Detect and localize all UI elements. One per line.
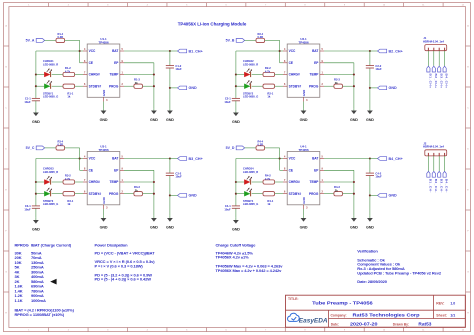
- wire led to R2-2: [252, 74, 263, 76]
- svg-text:BAT: BAT: [112, 49, 118, 53]
- svg-text:VCC: VCC: [89, 157, 96, 161]
- svg-text:TEMP: TEMP: [110, 180, 120, 184]
- svg-text:R2-3: R2-3: [334, 77, 340, 81]
- svg-text:STDBY#: STDBY#: [289, 84, 302, 88]
- svg-text:LED-0805_G: LED-0805_G: [43, 202, 58, 206]
- junction LED rail STDBY D: [235, 193, 237, 195]
- resistor R2-1 1k: [263, 84, 275, 99]
- svg-text:10uF: 10uF: [375, 175, 382, 179]
- IC U2-1 TP4056: [283, 37, 324, 102]
- resistor R1-1 1k: [63, 84, 75, 99]
- junction LED rail CHRG D: [235, 181, 237, 183]
- svg-text:PROG: PROG: [309, 84, 319, 88]
- wire U1-1 GND pin to ground: [103, 102, 105, 109]
- IC U3-1 TP4056: [83, 145, 124, 210]
- svg-text:5V_C: 5V_C: [26, 146, 35, 150]
- svg-text:10uF: 10uF: [375, 67, 382, 71]
- svg-text:GND: GND: [32, 228, 40, 232]
- svg-text:CE: CE: [289, 168, 293, 172]
- svg-text:LED-0805_R: LED-0805_R: [43, 62, 58, 66]
- note power dissipation: [95, 242, 156, 281]
- marker arrow 2K row: [50, 279, 56, 285]
- ground under U1-1: [100, 108, 108, 122]
- wire R2-4 to VCC/CE: [265, 40, 283, 62]
- wire junction to flag GND D: [370, 194, 378, 196]
- wire TEMP to gnd rail B: [324, 74, 354, 76]
- svg-text:1k: 1k: [267, 202, 270, 206]
- svg-text:B1_CH+: B1_CH+: [189, 49, 203, 53]
- resistor R4-4 0.3R: [256, 139, 265, 150]
- wire TEMP to gnd rail C: [124, 181, 154, 183]
- netport B1_CH+ (J1 pin 1): [427, 66, 433, 88]
- svg-text:Sheet:: Sheet:: [436, 313, 447, 317]
- junction PROG node A: [153, 85, 155, 87]
- junction VCC node D: [279, 157, 281, 159]
- wire rail to CHRG led C: [36, 181, 44, 183]
- svg-text:R1-3: R1-3: [134, 77, 140, 81]
- wire VCC rail D: [236, 159, 280, 206]
- wire rail to CHRG led A: [36, 74, 44, 76]
- netport 5V_B: [226, 39, 245, 43]
- svg-text:TP4056: TP4056: [98, 41, 109, 45]
- svg-text:1k: 1k: [67, 202, 70, 206]
- svg-text:TEMP: TEMP: [310, 180, 320, 184]
- resistor R3-1 1k: [63, 192, 75, 207]
- wire 5V_B to R2-4: [245, 39, 256, 41]
- ground under C2-2: [366, 108, 374, 122]
- wire R2-2 to CHRG pin: [275, 74, 283, 76]
- wire R3-3 to gnd rail: [143, 193, 154, 195]
- wire BAT vertical B: [369, 51, 371, 108]
- svg-text:5V_B: 5V_B: [226, 39, 235, 43]
- junction GND flag node D: [369, 194, 371, 196]
- label CHRG03: [43, 167, 58, 174]
- svg-text:4.7k: 4.7k: [265, 69, 271, 73]
- wire led to R4-1: [252, 193, 263, 195]
- svg-text:GND: GND: [189, 194, 198, 198]
- svg-text:0.3R: 0.3R: [58, 143, 64, 147]
- wire BAT to B3_CH+ node: [124, 158, 170, 160]
- wire led to R4-2: [252, 181, 263, 183]
- svg-text:GND: GND: [302, 90, 306, 96]
- svg-text:GND: GND: [350, 226, 358, 230]
- wire junction to flag B2_CH+: [370, 50, 378, 52]
- wire R3-4 to VCC/CE: [65, 148, 83, 170]
- svg-text:10uF: 10uF: [175, 67, 182, 71]
- junction PROG node D: [353, 193, 355, 195]
- netport B2_CH- (J2 pin 2): [432, 171, 438, 192]
- led CHRG01 red: [44, 68, 52, 77]
- wire R4-4 to VCC/CE: [265, 148, 283, 170]
- svg-text:G: G: [467, 271, 469, 273]
- wire junction to flag B4_CH+: [370, 158, 378, 160]
- capacitor C1-1 10uF: [24, 97, 40, 104]
- resistor R2-2 4.7k: [263, 66, 275, 76]
- svg-text:P = I × V (0.6 × 0.3 = 0.18W): P = I × V (0.6 × 0.3 = 0.18W): [95, 264, 144, 269]
- netport B4_CH+ (J1 pin 4): [443, 66, 449, 88]
- svg-text:LED-0805_R: LED-0805_R: [243, 62, 258, 66]
- wire PROG to R4-3: [324, 193, 334, 195]
- title text: [288, 297, 373, 306]
- wire J2 pin 4: [444, 156, 446, 172]
- junction GND flag node C: [169, 194, 171, 196]
- wire C3-1 to gnd: [35, 208, 37, 218]
- wire 5V_A to R1-4: [45, 39, 56, 41]
- resistor R1-3 2k: [134, 77, 143, 88]
- svg-text:Charge Cutoff Voltage: Charge Cutoff Voltage: [216, 242, 257, 247]
- wire VCC rail B: [236, 51, 280, 98]
- resistor R1-4 0.3R: [56, 32, 65, 43]
- svg-text:VCC: VCC: [289, 49, 296, 53]
- svg-text:B3_CH+: B3_CH+: [439, 74, 443, 89]
- svg-text:0.3R: 0.3R: [58, 35, 64, 39]
- ground under C4-2: [366, 216, 374, 230]
- svg-text:GND: GND: [302, 197, 306, 203]
- svg-text:1k: 1k: [267, 95, 270, 99]
- svg-text:GND: GND: [189, 86, 198, 90]
- netport B3_CH+: [178, 157, 203, 161]
- svg-text:B3_CH+: B3_CH+: [189, 157, 203, 161]
- netport B1_CH- (J2 pin 1): [427, 171, 433, 192]
- wire BAT vertical A: [169, 51, 171, 108]
- resistor R4-1 1k: [263, 192, 275, 207]
- resistor R2-4 0.3R: [256, 32, 265, 43]
- IC U1-1 TP4056: [83, 37, 124, 102]
- svg-text:TP4056X Max = 4.2v + 0.042 = 4: TP4056X Max = 4.2v + 0.042 = 4.242v: [216, 268, 283, 273]
- led STDBY2 green: [244, 80, 252, 89]
- svg-text:GND: GND: [389, 194, 398, 198]
- ground under C1-2: [166, 108, 174, 122]
- svg-text:CHRG#: CHRG#: [289, 180, 300, 184]
- svg-text:CE: CE: [89, 168, 93, 172]
- svg-text:Drawn By:: Drawn By:: [393, 322, 409, 326]
- svg-text:HDR-M-2.54_1x4: HDR-M-2.54_1x4: [423, 39, 444, 43]
- svg-text:GND: GND: [300, 226, 308, 230]
- label CHRG04: [243, 167, 258, 174]
- svg-text:B4_CH+: B4_CH+: [445, 74, 449, 89]
- wire BAT to B1_CH+ node: [124, 50, 170, 52]
- resistor R1-2 4.7k: [63, 66, 75, 76]
- svg-text:GND: GND: [102, 197, 106, 203]
- svg-text:B2_CH-: B2_CH-: [434, 179, 438, 193]
- label C2-2: [375, 64, 382, 71]
- svg-text:TP4056: TP4056: [298, 148, 309, 152]
- junction BAT node D: [369, 157, 371, 159]
- capacitor C2-1 10uF: [224, 97, 240, 104]
- svg-text:STDBY#: STDBY#: [89, 84, 102, 88]
- svg-text:GND: GND: [350, 118, 358, 122]
- junction VCC node A: [79, 50, 81, 52]
- netport 5V_D: [226, 146, 245, 150]
- svg-text:GND: GND: [366, 226, 374, 230]
- svg-text:B1_CH+: B1_CH+: [429, 74, 433, 89]
- company field: [331, 313, 421, 318]
- wire VCC rail A: [36, 51, 80, 98]
- label STDBY2: [243, 91, 258, 98]
- svg-text:B4_CH-: B4_CH-: [445, 179, 449, 193]
- ground under U3-1: [100, 216, 108, 230]
- svg-text:1000mA: 1000mA: [31, 298, 46, 303]
- note table RPROG charge current: [15, 242, 75, 317]
- wire junction to flag B3_CH+: [170, 158, 178, 160]
- svg-text:CE: CE: [289, 61, 293, 65]
- svg-text:4.7k: 4.7k: [65, 177, 71, 181]
- wire EP to gnd rail A: [124, 63, 154, 109]
- wire J1 pin 3: [438, 51, 440, 66]
- svg-text:GND: GND: [232, 228, 240, 232]
- svg-text:GND: GND: [166, 118, 174, 122]
- junction LED rail CHRG B: [235, 73, 237, 75]
- led CHRG04 red: [244, 176, 252, 185]
- led STDBY1 green: [44, 80, 52, 89]
- svg-text:1.1K: 1.1K: [15, 298, 23, 303]
- wire R3-2 to CHRG pin: [75, 181, 83, 183]
- ground under R2-3 rail: [350, 108, 358, 122]
- title block frame: [286, 295, 466, 327]
- wire R2-1 to STDBY pin: [275, 85, 283, 87]
- junction TEMP node A: [153, 73, 155, 75]
- wire rail to STDBY led B: [236, 85, 244, 87]
- wire 5V_C to R3-4: [45, 147, 56, 149]
- junction GND flag node B: [369, 87, 371, 89]
- svg-text:PD = (VCC - (VBAT + VRCC))IBAT: PD = (VCC - (VBAT + VRCC))IBAT: [95, 250, 156, 255]
- svg-text:B4_CH+: B4_CH+: [389, 157, 403, 161]
- netport 5V_C: [26, 146, 45, 150]
- svg-text:Updated PCB : Tube Preamp - TP: Updated PCB : Tube Preamp - TP4056 v2 Re…: [357, 270, 442, 275]
- wire J1 pin 2: [433, 51, 435, 66]
- netport GND D: [378, 194, 398, 198]
- wire 5V_D to R4-4: [245, 147, 256, 149]
- wire U3-1 GND pin to ground: [103, 209, 105, 216]
- junction LED rail STDBY C: [35, 193, 37, 195]
- svg-text:10uF: 10uF: [224, 207, 231, 211]
- junction TEMP node C: [153, 181, 155, 183]
- wire R1-1 to STDBY pin: [75, 85, 83, 87]
- svg-text:B2_CH+: B2_CH+: [389, 49, 403, 53]
- netport B3_CH+ (J1 pin 3): [438, 66, 444, 88]
- wire C4-1 to gnd: [235, 208, 237, 218]
- capacitor C1-2 10uF: [166, 66, 174, 68]
- svg-text:Rat53: Rat53: [418, 322, 432, 327]
- resistor R2-3 2k: [334, 77, 343, 88]
- svg-text:1/1: 1/1: [450, 313, 455, 317]
- ground under R3-3 rail: [150, 216, 158, 230]
- svg-text:CHRG#: CHRG#: [89, 180, 100, 184]
- wire VCC rail C: [36, 159, 80, 206]
- note verification: [357, 249, 442, 284]
- wire junction to flag GND C: [170, 194, 178, 196]
- svg-text:TP4056: TP4056: [298, 41, 309, 45]
- netport B2_CH+ (J1 pin 2): [432, 66, 438, 88]
- netport B1_CH+: [178, 49, 203, 53]
- label STDBY1: [43, 91, 58, 98]
- svg-text:PROG: PROG: [109, 192, 119, 196]
- svg-text:10uF: 10uF: [175, 175, 182, 179]
- junction GND flag node A: [169, 87, 171, 89]
- wire C1-1 to gnd: [35, 101, 37, 111]
- svg-text:EasyEDA: EasyEDA: [299, 319, 328, 325]
- junction BAT node B: [369, 50, 371, 52]
- wire rail to STDBY led C: [36, 193, 44, 195]
- junction VCC node B: [279, 50, 281, 52]
- wire TEMP to gnd rail A: [124, 74, 154, 76]
- svg-text:LED-0805_R: LED-0805_R: [243, 170, 258, 174]
- wire U2-1 GND pin to ground: [303, 102, 305, 109]
- resistor R4-3 2k: [334, 185, 343, 196]
- svg-text:GND: GND: [166, 226, 174, 230]
- svg-text:0.3R: 0.3R: [258, 35, 264, 39]
- wire PROG to R2-3: [324, 85, 334, 87]
- svg-text:GND: GND: [32, 120, 40, 124]
- wire EP to gnd rail D: [324, 170, 354, 216]
- capacitor C2-2 10uF: [366, 66, 374, 68]
- ground under C2-1: [232, 110, 240, 124]
- ground under U4-1: [300, 216, 308, 230]
- wire J2 pin 2: [433, 156, 435, 172]
- note charge cutoff voltage: [216, 242, 284, 273]
- svg-text:BAT: BAT: [312, 157, 318, 161]
- svg-text:Power Dissipation: Power Dissipation: [95, 242, 129, 247]
- junction BAT node C: [169, 157, 171, 159]
- svg-text:R3-3: R3-3: [134, 185, 140, 189]
- led STDBY3 green: [44, 188, 52, 197]
- svg-text:TP4056X 4.2v ±1%: TP4056X 4.2v ±1%: [216, 255, 250, 260]
- wire led to R2-1: [252, 85, 263, 87]
- wire R1-4 to VCC/CE: [65, 40, 83, 62]
- wire R2-3 to gnd rail: [343, 85, 354, 87]
- svg-text:TEMP: TEMP: [310, 73, 320, 77]
- svg-text:RPROG = 1100/IBAT (±10%): RPROG = 1100/IBAT (±10%): [15, 312, 65, 317]
- resistor R4-2 4.7k: [263, 174, 275, 184]
- label STDBY3: [43, 199, 58, 206]
- ground under C1-1: [32, 110, 40, 124]
- svg-text:VCC: VCC: [89, 49, 96, 53]
- svg-text:GND: GND: [389, 86, 398, 90]
- wire R4-2 to CHRG pin: [275, 181, 283, 183]
- ground under C3-2: [166, 216, 174, 230]
- svg-text:Date: 28/09/2020: Date: 28/09/2020: [357, 279, 387, 284]
- netport 5V_A: [26, 39, 45, 43]
- svg-text:4.7k: 4.7k: [65, 69, 71, 73]
- wire J1 pin 4: [444, 51, 446, 66]
- svg-text:IBAT (Charge Current): IBAT (Charge Current): [31, 242, 72, 247]
- wire R4-3 to gnd rail: [343, 193, 354, 195]
- ground under R4-3 rail: [350, 216, 358, 230]
- svg-text:5V_D: 5V_D: [226, 146, 235, 150]
- wire J1 pin 1: [427, 51, 429, 66]
- svg-text:TP4056X Li-Ion Charging Module: TP4056X Li-Ion Charging Module: [178, 21, 247, 26]
- svg-text:LED-0805_G: LED-0805_G: [243, 95, 258, 99]
- label C4-2: [375, 171, 382, 178]
- wire rail to STDBY led D: [236, 193, 244, 195]
- wire led to R3-2: [52, 181, 63, 183]
- svg-text:Verification: Verification: [357, 249, 378, 254]
- svg-text:4.7k: 4.7k: [265, 177, 271, 181]
- svg-text:LED-0805_G: LED-0805_G: [243, 202, 258, 206]
- ground under R1-3 rail: [150, 108, 158, 122]
- ground under C3-1: [32, 218, 40, 232]
- wire R1-3 to gnd rail: [143, 85, 154, 87]
- svg-text:10uF: 10uF: [24, 207, 31, 211]
- capacitor C4-2 10uF: [366, 173, 374, 175]
- wire J2 pin 1: [427, 156, 429, 172]
- capacitor C3-2 10uF: [166, 173, 174, 175]
- svg-text:Company:: Company:: [331, 313, 347, 317]
- svg-text:BAT: BAT: [112, 157, 118, 161]
- svg-text:REV:: REV:: [436, 301, 444, 305]
- svg-text:10uF: 10uF: [224, 100, 231, 104]
- wire rail to STDBY led A: [36, 85, 44, 87]
- svg-text:PROG: PROG: [109, 84, 119, 88]
- netport GND A: [178, 86, 198, 90]
- svg-text:PROG: PROG: [309, 192, 319, 196]
- svg-text:HDR-M-2.54_1x4: HDR-M-2.54_1x4: [423, 145, 444, 149]
- netport B2_CH+: [378, 49, 403, 53]
- IC U4-1 TP4056: [283, 145, 324, 210]
- resistor R3-3 2k: [134, 185, 143, 196]
- wire C2-1 to gnd: [235, 101, 237, 111]
- svg-text:2k: 2k: [335, 81, 338, 85]
- svg-text:TITLE:: TITLE:: [288, 297, 299, 301]
- netport B3_CH- (J2 pin 3): [438, 171, 444, 192]
- svg-text:LED-0805_R: LED-0805_R: [43, 170, 58, 174]
- svg-text:STDBY#: STDBY#: [89, 192, 102, 196]
- wire junction to flag B1_CH+: [170, 50, 178, 52]
- svg-text:5V_A: 5V_A: [26, 39, 35, 43]
- svg-text:B1_CH-: B1_CH-: [429, 179, 433, 193]
- capacitor C3-1 10uF: [24, 204, 40, 211]
- sheet field: [436, 313, 455, 317]
- svg-text:10uF: 10uF: [24, 100, 31, 104]
- junction LED rail CHRG A: [35, 73, 37, 75]
- svg-text:2k: 2k: [335, 188, 338, 192]
- svg-text:GND: GND: [150, 226, 158, 230]
- connector J2 HDR-M-2.54_1x4: [423, 141, 447, 156]
- led CHRG03 red: [44, 176, 52, 185]
- svg-text:GND: GND: [150, 118, 158, 122]
- wire BAT vertical D: [369, 159, 371, 216]
- wire led to R1-2: [52, 74, 63, 76]
- wire EP to gnd rail C: [124, 170, 154, 216]
- junction LED rail STDBY A: [35, 85, 37, 87]
- netport GND B: [378, 86, 398, 90]
- resistor R3-4 0.3R: [56, 139, 65, 150]
- svg-text:GND: GND: [100, 118, 108, 122]
- svg-text:BAT: BAT: [312, 49, 318, 53]
- label STDBY4: [243, 199, 258, 206]
- label C3-2: [175, 171, 182, 178]
- led CHRG02 red: [244, 68, 252, 77]
- label CHRG01: [43, 59, 58, 66]
- svg-text:Date:: Date:: [331, 322, 339, 326]
- wire led to R3-1: [52, 193, 63, 195]
- svg-text:GND: GND: [102, 90, 106, 96]
- wire TEMP to gnd rail D: [324, 181, 354, 183]
- svg-text:GND: GND: [232, 120, 240, 124]
- wire R3-1 to STDBY pin: [75, 193, 83, 195]
- EasyEDA logo: [288, 313, 328, 324]
- capacitor C4-1 10uF: [224, 204, 240, 211]
- junction VCC node C: [79, 157, 81, 159]
- wire junction to flag GND B: [370, 87, 378, 89]
- resistor R3-2 4.7k: [63, 174, 75, 184]
- svg-text:CE: CE: [89, 61, 93, 65]
- netport GND C: [178, 194, 198, 198]
- svg-text:2020-07-20: 2020-07-20: [350, 322, 378, 327]
- junction BAT node A: [169, 50, 171, 52]
- wire led to R1-1: [52, 85, 63, 87]
- svg-text:R4-3: R4-3: [334, 185, 340, 189]
